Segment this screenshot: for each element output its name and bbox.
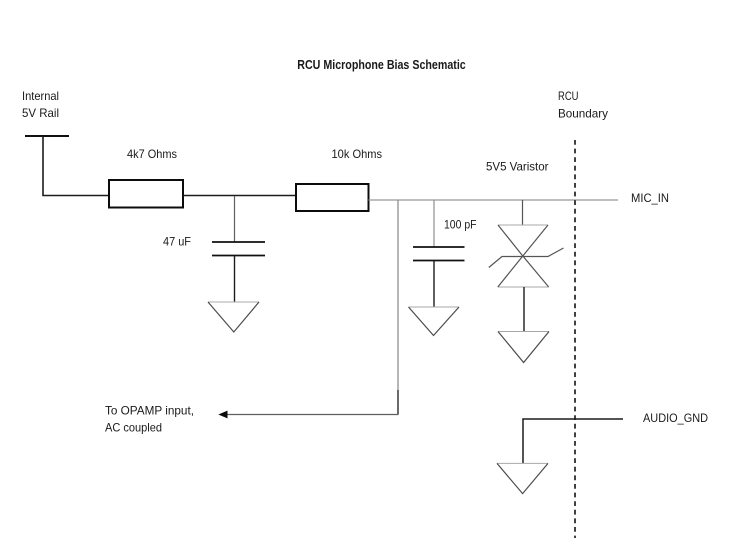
svg-text:100 pF: 100 pF: [444, 218, 477, 232]
svg-text:10k Ohms: 10k Ohms: [332, 147, 383, 161]
capacitor C2 100pF: [413, 247, 465, 261]
ground AUDIO_GND: [497, 463, 548, 493]
wire opamp tap horizontal: [226, 414, 399, 416]
svg-text:5V5 Varistor: 5V5 Varistor: [486, 160, 549, 174]
arrowhead to opamp: [218, 411, 227, 419]
ground under C2: [409, 307, 460, 336]
svg-text:47 uF: 47 uF: [163, 235, 191, 249]
svg-text:RCU Microphone Bias Schematic: RCU Microphone Bias Schematic: [297, 58, 466, 72]
resistor R1 4k7: [109, 180, 183, 208]
ground under C1: [208, 302, 259, 332]
wire opamp tap lower segment: [397, 390, 399, 415]
label RCU Boundary: [558, 89, 608, 121]
wire C1 to ground: [234, 256, 236, 303]
wire C2 to ground: [433, 261, 435, 308]
ground under varistor: [498, 332, 549, 363]
svg-text:MIC_IN: MIC_IN: [631, 191, 669, 205]
wire junction down to opamp tap: [397, 200, 399, 390]
resistor R2 10k: [296, 184, 369, 211]
svg-text:5V Rail: 5V Rail: [22, 106, 59, 120]
svg-text:AC coupled: AC coupled: [105, 421, 162, 435]
wire junction to C1: [234, 196, 236, 242]
svg-text:Internal: Internal: [22, 89, 59, 103]
svg-text:Boundary: Boundary: [558, 107, 608, 121]
capacitor C1 47uF: [212, 242, 265, 256]
power rail 5V: [25, 135, 69, 137]
wire junction to varistor: [522, 200, 524, 225]
svg-text:AUDIO_GND: AUDIO_GND: [643, 411, 708, 425]
wire R2 to MIC_IN: [369, 199, 619, 201]
wire R1 to R2: [183, 195, 296, 197]
wire varistor to ground: [523, 287, 525, 332]
svg-text:To OPAMP input,: To OPAMP input,: [105, 404, 194, 418]
label Internal 5V Rail: [22, 89, 59, 120]
svg-text:4k7 Ohms: 4k7 Ohms: [127, 147, 177, 161]
svg-text:RCU: RCU: [558, 89, 579, 103]
boundary dashed line: [574, 140, 576, 538]
wire junction to C2: [433, 200, 435, 247]
label To OPAMP input, AC coupled: [105, 404, 194, 435]
varistor RV1 5V5: [489, 225, 564, 287]
wire from 5V rail to R1: [43, 136, 109, 196]
wire AUDIO_GND: [523, 419, 623, 463]
